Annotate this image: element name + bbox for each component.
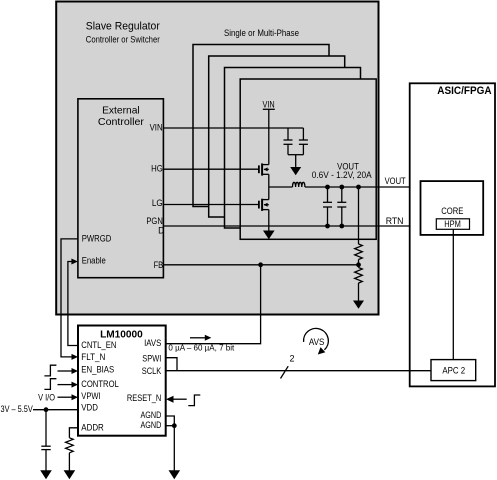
wire PWRGD to FLT_N [61,239,78,357]
arrowhead into EN_BIAS [72,368,79,374]
arrowhead into VPWI [72,394,79,400]
resistor R2 (divider bottom) [355,268,363,284]
svg-text:FB: FB [154,260,164,270]
svg-text:ASIC/FPGA: ASIC/FPGA [437,85,491,97]
svg-text:EN_BIAS: EN_BIAS [81,364,114,374]
wire EN_BIAS [58,370,73,372]
node FB to IAVS junction [258,262,263,267]
svg-text:RTN: RTN [386,216,404,226]
node FB junction [356,262,361,267]
svg-text:ADDR: ADDR [81,423,104,433]
arrowhead into Enable [71,259,78,265]
svg-text:Single or Multi-Phase: Single or Multi-Phase [224,28,299,38]
capacitor C2 (input cap right) [299,128,308,155]
wire CONTROL [58,384,73,386]
ground arrow under divider [353,301,364,309]
svg-text:LG: LG [152,198,163,208]
wire Q2 source to ground [268,210,270,231]
pulse symbol at CONTROL [44,379,56,390]
wire HPM to APC2 [452,229,454,359]
svg-text:Controller or Switcher: Controller or Switcher [86,34,160,44]
pulse symbol at EN_BIAS [44,365,56,376]
svg-text:AGND: AGND [141,410,162,420]
wire PGND / RTN rail [163,225,420,227]
CORE box [421,181,484,235]
VOUT range label [312,162,372,180]
capacitor C1 (input cap left) [284,128,293,155]
svg-text:VIN: VIN [150,123,163,133]
slave regulator gray box [56,2,378,315]
svg-text:RESET_N: RESET_N [127,393,161,403]
wire AGND to ground [173,426,175,471]
svg-text:3V – 5.5V: 3V – 5.5V [1,404,33,414]
AVS circular arrow [304,328,329,354]
node AGND junction [172,423,177,428]
capacitor C4 (output cap right) [337,187,346,226]
ground arrow under input caps [290,155,301,176]
transistor Q1 (high-side MOSFET) [259,163,269,175]
wire VOUT to divider [358,187,360,244]
svg-text:AVS: AVS [309,337,325,347]
APC 2 box [431,360,476,381]
ground arrow at phase box bottom [263,231,275,240]
LM10000 U2 [78,326,166,436]
bus width slash [281,366,289,378]
svg-text:CNTL_EN: CNTL_EN [81,340,116,350]
node dots on VOUT rail [325,185,330,190]
svg-text:APC 2: APC 2 [442,365,465,375]
wire R3 to ground [68,453,70,471]
inductor L1 [269,182,305,187]
resistor R3 (ADDR) [66,438,74,453]
node VDD junction [44,407,49,412]
wire joining input caps [288,154,303,156]
svg-text:VDD: VDD [81,403,98,413]
wire CNTL_EN to Enable [68,262,78,346]
arrowhead into FLT_N [72,354,79,360]
svg-text:D: D [158,225,164,235]
phase box 3 [225,68,361,229]
wire VDD [33,409,78,411]
node dots on RTN rail [325,224,330,229]
svg-text:Controller: Controller [98,116,145,128]
svg-text:IAVS: IAVS [144,338,161,348]
svg-text:V I/O: V I/O [38,392,55,402]
HPM box [436,219,469,230]
svg-text:LM10000: LM10000 [100,328,143,340]
wire VIN vertical rail [268,109,270,164]
svg-text:0 µA – 60 µA, 7 bit: 0 µA – 60 µA, 7 bit [168,342,235,352]
svg-text:VIN: VIN [263,100,275,110]
arrowhead into CONTROL [72,382,79,388]
ASIC/FPGA box [410,83,495,386]
phase box 2 [209,56,345,217]
resistor R1 (divider top) [355,244,363,260]
wire FB [163,264,358,266]
capacitor C5 (VDD bypass) [41,410,50,471]
ground arrow under R3 [64,470,76,479]
svg-text:Enable: Enable [82,256,106,266]
wire VIN from controller to input caps [163,127,303,129]
ground arrow under C5 [40,470,52,479]
svg-text:CORE: CORE [441,206,463,216]
ground arrow under AGND [169,470,181,479]
wire LG gate drive [163,204,258,206]
svg-text:HPM: HPM [444,219,461,229]
svg-text:VOUT: VOUT [385,176,407,186]
wire RESET_N [172,398,187,400]
wire switch node [268,174,270,199]
svg-text:HG: HG [151,164,163,174]
wire divider to ground [358,283,360,301]
wire to FB node [358,260,360,268]
node VIN label [263,100,275,110]
wire SPWI [166,358,177,371]
transistor Q2 (low-side MOSFET) [259,199,269,211]
external controller U1 [78,99,163,278]
svg-text:External: External [102,105,140,117]
wire SCLK / SPI bus to APC2 [166,370,431,372]
wire FB node down to IAVS [166,265,261,344]
wire ADDR [69,428,78,438]
svg-text:CONTROL: CONTROL [81,379,119,389]
arrowhead into RESET_N [166,396,174,403]
svg-text:AGND: AGND [141,420,162,430]
IAVS current arrow [190,335,211,341]
wire HG gate drive [163,168,258,170]
svg-text:VPWI: VPWI [81,391,100,401]
wire VPWI [58,396,73,398]
svg-text:2: 2 [290,354,295,364]
svg-text:PWRGD: PWRGD [82,233,112,243]
svg-text:0.6V - 1.2V, 20A: 0.6V - 1.2V, 20A [312,170,372,180]
capacitor C3 (output cap left) [323,187,332,226]
svg-text:SPWI: SPWI [142,353,161,363]
phase box 1 (back) [193,45,329,207]
svg-text:FLT_N: FLT_N [81,352,105,362]
wire AGND pair [166,416,175,426]
svg-text:Slave Regulator: Slave Regulator [86,21,160,33]
pulse symbol at RESET_N [188,395,200,406]
wire VOUT rail [305,186,421,188]
svg-text:SCLK: SCLK [142,366,162,376]
phase box 4 (front) [240,79,376,239]
